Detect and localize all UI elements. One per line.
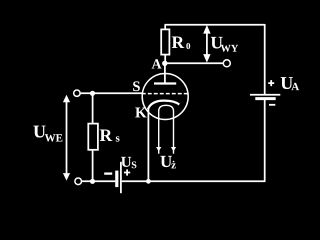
svg-text:A: A — [291, 81, 299, 93]
svg-text:S: S — [131, 160, 137, 171]
svg-text:A: A — [152, 57, 163, 72]
svg-text:U: U — [121, 155, 132, 171]
svg-text:K: K — [135, 105, 147, 121]
svg-text:WE: WE — [45, 133, 63, 145]
svg-text:ż: ż — [171, 159, 176, 171]
svg-text:WY: WY — [221, 44, 239, 55]
svg-text:R: R — [99, 125, 112, 145]
svg-text:s: s — [115, 132, 120, 144]
svg-text:R: R — [172, 32, 185, 52]
svg-text:0: 0 — [186, 41, 191, 51]
svg-text:S: S — [132, 79, 140, 95]
